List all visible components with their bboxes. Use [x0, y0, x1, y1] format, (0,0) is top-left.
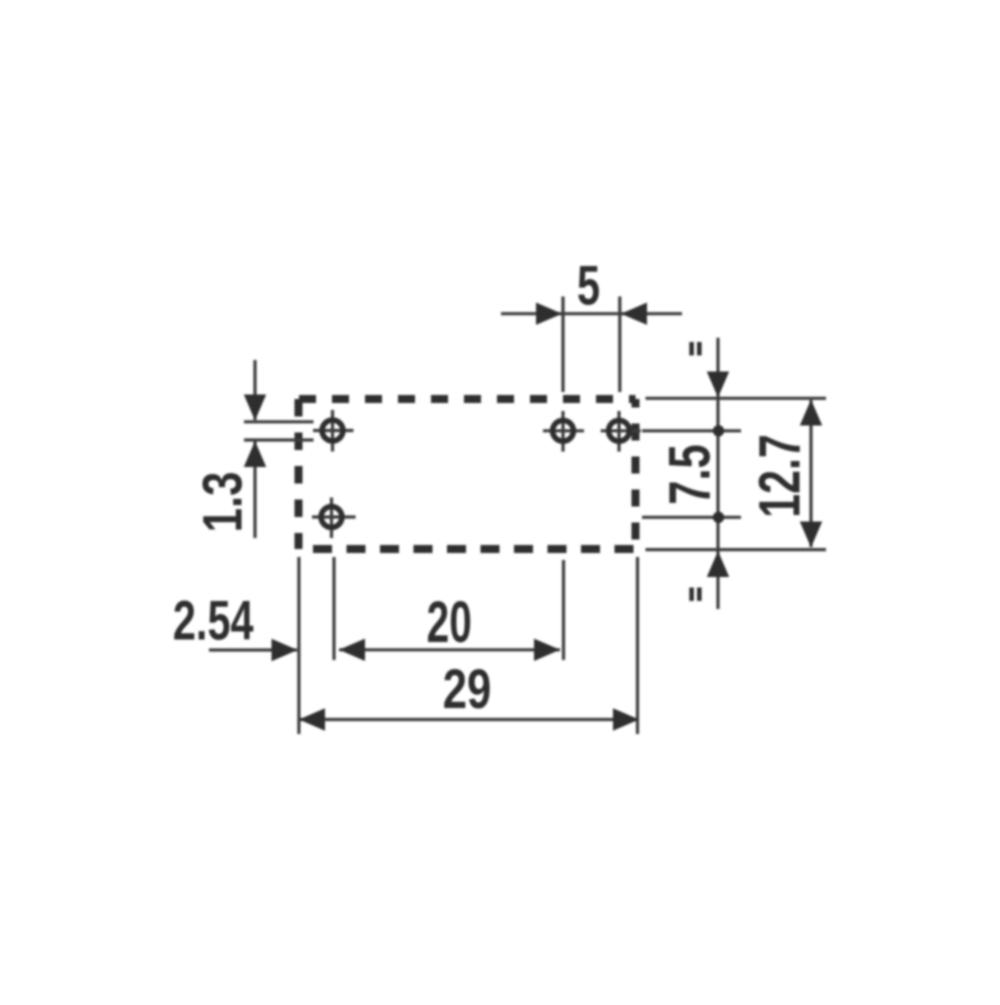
svg-text:5: 5: [577, 254, 600, 317]
svg-text:12.7: 12.7: [747, 434, 812, 518]
svg-text:1.3: 1.3: [191, 472, 253, 533]
svg-text:20: 20: [427, 590, 472, 655]
svg-text:7.5: 7.5: [657, 444, 721, 504]
svg-text:29: 29: [443, 658, 492, 720]
svg-text:2.54: 2.54: [173, 590, 254, 653]
